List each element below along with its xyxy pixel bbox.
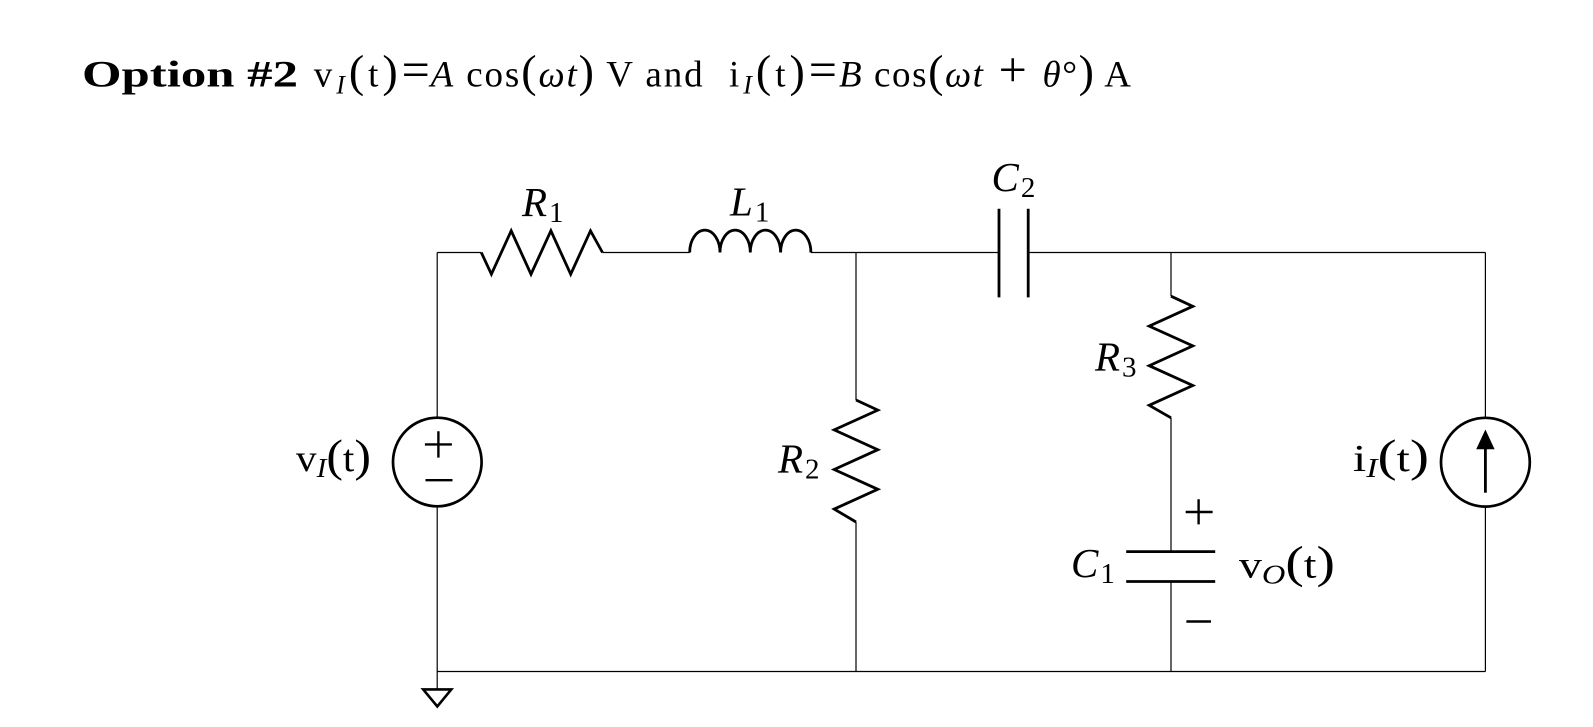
resistor R1: [481, 231, 602, 274]
resistor R3: [1149, 296, 1193, 418]
wire left branch: voltage source to bottom rail and ground stub: [436, 506, 438, 689]
wire bottom rail: [437, 671, 1485, 673]
inductor L1: [690, 230, 811, 252]
resistor R2: [834, 400, 878, 522]
wire left branch: top rail down to voltage source: [436, 253, 438, 418]
svg-text:Option #2: Option #2: [82, 54, 298, 95]
svg-text:C1: C1: [1071, 540, 1115, 590]
voltage source V circle: [393, 418, 482, 507]
svg-text:B cos(ωt + θ°) A: B cos(ωt + θ°) A: [839, 41, 1131, 97]
wire top rail: left corner to R1: [437, 252, 481, 254]
capacitor C1 plates: [1126, 552, 1215, 582]
minus sign at C1: [1186, 620, 1211, 622]
wire top rail: L1 to C2 left plate (through node at x=856): [811, 252, 999, 254]
svg-text:R3: R3: [1094, 334, 1137, 384]
wire R2 branch: R2 down to bottom rail: [855, 522, 857, 672]
current source I circle: [1441, 418, 1530, 507]
ground: [423, 689, 451, 706]
capacitor C2 plates: [999, 209, 1028, 298]
svg-text:vO(t): vO(t): [1239, 537, 1335, 590]
wire right branch: top rail down to current source: [1484, 253, 1486, 418]
wire right branch: current source to bottom rail: [1484, 507, 1486, 672]
current source arrow head: [1476, 430, 1494, 450]
wire top rail: R1 to L1: [603, 252, 690, 254]
wire C1 to bottom rail: [1170, 582, 1172, 672]
svg-text:iI(t): iI(t): [1353, 430, 1429, 483]
wire R3 branch: node on top rail down to R3: [1170, 253, 1172, 297]
plus sign at C1: [1186, 499, 1213, 524]
title: [82, 41, 1131, 99]
svg-text:vI(t): vI(t): [296, 430, 371, 483]
svg-text:L1: L1: [729, 179, 769, 229]
svg-text:R1: R1: [521, 179, 564, 229]
svg-text:iI(t)=: iI(t)=: [729, 41, 837, 99]
svg-text:C2: C2: [992, 154, 1036, 204]
wire top rail: C2 right plate to top-right corner: [1028, 252, 1485, 254]
voltage source minus sign: [426, 479, 453, 481]
voltage source plus sign: [425, 431, 452, 457]
svg-text:vI(t)=: vI(t)=: [314, 41, 430, 99]
svg-text:A cos(ωt) V and: A cos(ωt) V and: [428, 45, 703, 96]
wire R2 branch: node on top rail down to R2: [855, 253, 857, 401]
wire R3 to C1: [1170, 418, 1172, 552]
svg-text:R2: R2: [777, 436, 820, 486]
current source arrow shaft: [1484, 447, 1487, 493]
